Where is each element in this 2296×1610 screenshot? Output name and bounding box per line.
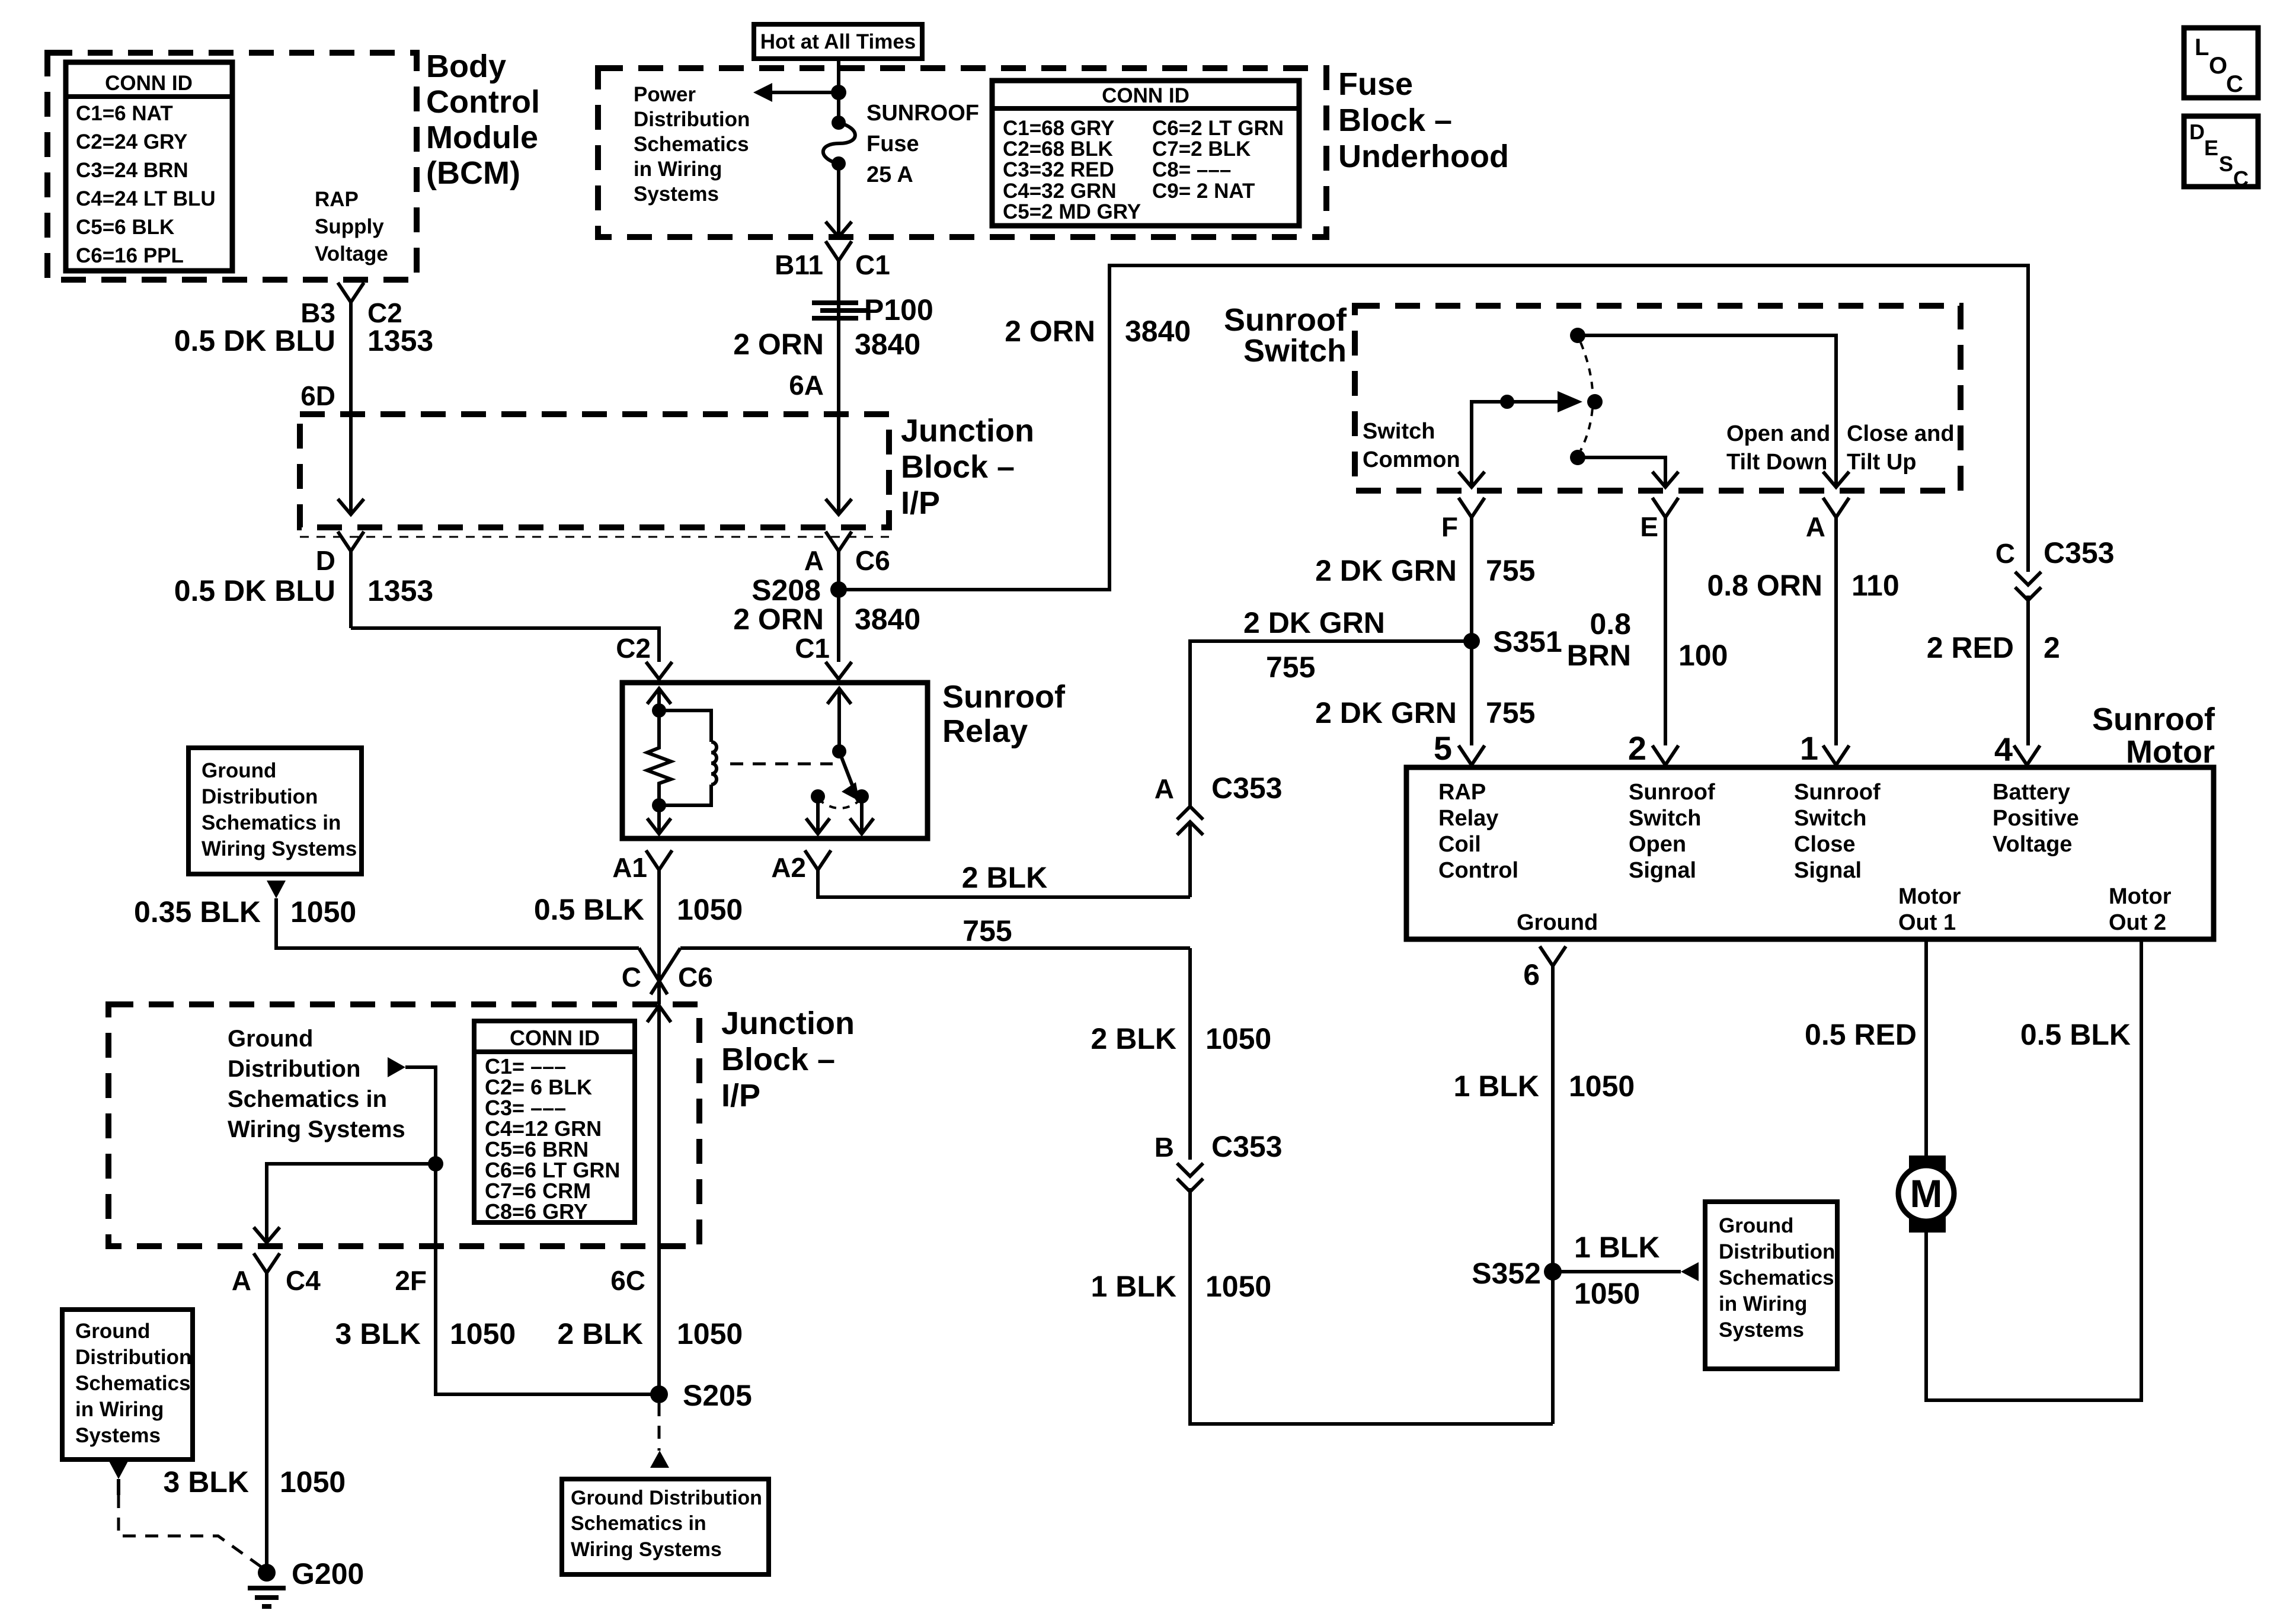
svg-text:3840: 3840 (855, 603, 920, 636)
CONN ID table (Fuse Block) (992, 81, 1299, 226)
svg-text:C7=2 BLK: C7=2 BLK (1152, 137, 1251, 161)
arrow to power distribution (left) (753, 83, 839, 102)
connector B11/C1 below fuse block (775, 241, 890, 280)
svg-text:Close and: Close and (1847, 421, 1955, 446)
svg-text:Positive: Positive (1993, 806, 2079, 831)
svg-text:Distribution: Distribution (202, 785, 318, 808)
Sunroof Switch label (1224, 302, 1347, 369)
svg-text:1353: 1353 (367, 574, 433, 607)
svg-text:C4=24 LT BLU: C4=24 LT BLU (76, 187, 216, 210)
svg-text:C353: C353 (1211, 1130, 1283, 1163)
svg-text:S352: S352 (1472, 1257, 1541, 1290)
relay pin A2 connector (771, 850, 831, 883)
wire fuse to fuse block edge with arrow (826, 164, 852, 237)
dashed link to G200 (119, 1495, 264, 1569)
relay pin C1 connector (795, 633, 852, 683)
junction dot on ground bus (428, 1156, 443, 1172)
svg-text:RAP: RAP (1438, 780, 1486, 805)
connector B3/C2 at BCM (300, 283, 402, 328)
svg-text:Power: Power (634, 83, 696, 106)
svg-text:Ground: Ground (75, 1320, 150, 1343)
svg-text:Signal: Signal (1629, 858, 1696, 883)
svg-text:C353: C353 (1211, 772, 1283, 805)
Switch Common label (1363, 419, 1460, 472)
svg-text:in Wiring: in Wiring (75, 1398, 164, 1421)
svg-text:C: C (2233, 167, 2249, 191)
wire 2 BLK 755 relay A2 to connector (818, 861, 1190, 948)
svg-text:1: 1 (1800, 729, 1818, 767)
svg-text:2F: 2F (395, 1265, 427, 1296)
svg-text:Switch: Switch (1243, 333, 1347, 369)
relay pin A1 connector (612, 850, 672, 883)
RAP Supply Voltage pin label (315, 188, 388, 265)
relay coil branch entry arrow (C2 side) (647, 689, 671, 745)
wire 0.5 DK BLU 1353 from BCM to junction block (174, 302, 434, 414)
wire 2 BLK 1050 on 6C branch (558, 1317, 743, 1350)
svg-text:Distribution: Distribution (228, 1056, 360, 1082)
svg-text:Tilt Down: Tilt Down (1726, 450, 1827, 475)
svg-text:Motor: Motor (1898, 884, 1961, 909)
svg-text:C: C (2226, 71, 2243, 97)
svg-text:E: E (1640, 511, 1658, 542)
svg-text:Switch: Switch (1629, 806, 1701, 831)
svg-text:C1=68 GRY: C1=68 GRY (1003, 117, 1114, 140)
wire branch to A/C4 (254, 1164, 436, 1243)
wire 1 BLK 1050 S352 to ground distribution (1553, 1231, 1699, 1310)
svg-text:755: 755 (962, 914, 1012, 948)
switch close contact (top) and wire to pin A (1570, 328, 1849, 487)
svg-text:Coil: Coil (1438, 832, 1481, 857)
arrow into junction block 2 (647, 1006, 671, 1022)
motor Out 1 label (1898, 884, 1961, 935)
svg-text:C8=6 GRY: C8=6 GRY (485, 1199, 588, 1224)
svg-text:Distribution: Distribution (634, 108, 750, 131)
switch open contact (bottom) and wire to pin E (1570, 450, 1678, 487)
relay switch arm (839, 751, 859, 801)
connector B/C353 (1155, 1130, 1283, 1192)
wire 2 ORN 3840 S208 to sunroof motor battery feed (839, 265, 2028, 590)
Junction Block - I/P (lower) dashed box (108, 1004, 699, 1246)
svg-text:F: F (1441, 511, 1458, 542)
motor pin 2 label: Sunroof Switch Open Signal (1629, 780, 1715, 883)
svg-text:Distribution: Distribution (75, 1346, 191, 1369)
motor pin 5 label: RAP Relay Coil Control (1438, 780, 1518, 883)
svg-text:2 DK GRN: 2 DK GRN (1243, 606, 1385, 639)
wire 0.8 ORN 110 from A to motor pin 1 (1707, 517, 1899, 745)
svg-text:C4=32 GRN: C4=32 GRN (1003, 180, 1117, 203)
svg-text:Motor: Motor (2126, 734, 2215, 770)
Ground Distribution reference label inside junction block (228, 1026, 405, 1142)
svg-text:Module: Module (426, 120, 538, 155)
svg-text:Systems: Systems (1719, 1318, 1804, 1342)
svg-text:Schematics: Schematics (634, 133, 749, 156)
svg-text:in Wiring: in Wiring (634, 158, 722, 181)
svg-text:100: 100 (1678, 639, 1728, 672)
svg-text:C1: C1 (855, 249, 890, 280)
svg-text:C2=24 GRY: C2=24 GRY (76, 130, 187, 153)
svg-text:Schematics: Schematics (75, 1372, 191, 1395)
svg-text:2 BLK: 2 BLK (962, 861, 1047, 894)
svg-text:L: L (2195, 34, 2209, 60)
svg-text:2 DK GRN: 2 DK GRN (1315, 696, 1457, 729)
svg-text:Sunroof: Sunroof (2092, 702, 2215, 737)
Ground Distribution box (bottom middle) (562, 1479, 769, 1574)
svg-text:4: 4 (1994, 731, 2013, 768)
svg-text:3840: 3840 (1125, 315, 1191, 348)
svg-text:Tilt Up: Tilt Up (1847, 450, 1917, 475)
svg-text:A: A (1806, 511, 1825, 542)
Junction Block - I/P (upper) dashed box (300, 414, 889, 537)
Sunroof Switch dashed box (1355, 306, 1961, 491)
svg-text:3 BLK: 3 BLK (164, 1465, 249, 1499)
svg-text:110: 110 (1851, 569, 1900, 602)
svg-text:2 RED: 2 RED (1927, 631, 2014, 664)
svg-text:Common: Common (1363, 447, 1460, 472)
wire 0.5 DK BLU 1353 to relay C2 (174, 551, 659, 662)
relay switch common from C1 (827, 689, 851, 758)
svg-text:Sunroof: Sunroof (942, 679, 1066, 715)
svg-text:Systems: Systems (634, 183, 719, 206)
svg-text:Sunroof: Sunroof (1629, 780, 1715, 805)
svg-text:2 BLK: 2 BLK (558, 1317, 643, 1350)
wire 6D inside junction block with arrow (338, 414, 364, 514)
svg-text:CONN ID: CONN ID (105, 72, 193, 95)
svg-text:0.8: 0.8 (1590, 607, 1631, 641)
wire 2 DK GRN 755 branch from S351 to relay A2 (1190, 606, 1472, 806)
svg-text:CONN ID: CONN ID (510, 1026, 600, 1050)
SUNROOF Fuse 25 A (823, 101, 979, 187)
relay resistor lower junction and exit arrow to A1 (647, 786, 671, 834)
motor out 2 wire 0.5 BLK (1926, 939, 2141, 1400)
svg-text:Wiring Systems: Wiring Systems (202, 837, 357, 860)
svg-text:Ground: Ground (202, 759, 276, 782)
switch common wiper with arrow (1459, 391, 1603, 487)
svg-text:O: O (2209, 53, 2227, 79)
svg-text:Junction: Junction (721, 1006, 855, 1041)
svg-text:C1: C1 (795, 633, 830, 664)
svg-text:6A: 6A (789, 370, 824, 401)
svg-text:Motor: Motor (2109, 884, 2172, 909)
Sunroof Motor box (1406, 702, 2215, 939)
motor Ground label (1517, 910, 1598, 935)
svg-text:1 BLK: 1 BLK (1454, 1070, 1539, 1103)
svg-text:D: D (2189, 120, 2205, 144)
svg-text:A2: A2 (771, 852, 806, 883)
svg-text:755: 755 (1266, 651, 1315, 684)
connector A/C353 on relay control wire (1155, 772, 1283, 897)
pin 6 connector below motor (Ground) (1523, 946, 1566, 991)
wire from arrow to 2F branch (405, 1067, 659, 1394)
Hot at All Times box (754, 24, 922, 59)
wire 6C through junction block to S205 (657, 1006, 661, 1394)
svg-text:C6: C6 (678, 962, 713, 993)
svg-text:2 ORN: 2 ORN (733, 328, 824, 361)
svg-text:1050: 1050 (290, 895, 356, 929)
pin 5 connector at motor (1434, 729, 1485, 767)
svg-text:C2: C2 (616, 633, 651, 664)
svg-text:Voltage: Voltage (1993, 832, 2072, 857)
svg-text:C: C (1996, 538, 2015, 569)
svg-text:Sunroof: Sunroof (1794, 780, 1881, 805)
svg-text:5: 5 (1434, 729, 1452, 767)
svg-text:Block –: Block – (901, 449, 1015, 485)
svg-text:A1: A1 (612, 852, 647, 883)
DESC reference box (2184, 116, 2258, 191)
svg-text:2 BLK: 2 BLK (1091, 1022, 1176, 1055)
svg-text:0.5 DK BLU: 0.5 DK BLU (174, 324, 335, 357)
svg-text:Control: Control (426, 84, 540, 120)
Fuse Block label (1338, 66, 1509, 174)
node S205 (650, 1379, 752, 1412)
svg-text:A: A (1155, 773, 1174, 804)
node S208 (752, 551, 847, 662)
Ground Distribution box (bottom left) (62, 1310, 193, 1459)
svg-text:3840: 3840 (855, 328, 920, 361)
svg-text:2: 2 (2044, 631, 2060, 664)
Ground Distribution box (right) (1705, 1202, 1837, 1369)
wire 2 DK GRN 755 from F to S351 (1315, 517, 1535, 745)
svg-text:C8= –––: C8= ––– (1152, 158, 1231, 181)
Junction Block upper label (901, 413, 1034, 521)
svg-text:1353: 1353 (367, 324, 433, 357)
off-page arrow to ground distribution inside junction block (388, 1057, 405, 1077)
svg-text:3 BLK: 3 BLK (335, 1317, 421, 1350)
svg-text:SUNROOF: SUNROOF (866, 101, 979, 126)
svg-text:0.5 BLK: 0.5 BLK (534, 893, 644, 926)
svg-text:Wiring Systems: Wiring Systems (571, 1538, 722, 1561)
svg-text:1050: 1050 (1569, 1070, 1635, 1103)
wire from Hot at All Times into fuse block (837, 59, 840, 119)
svg-text:C5=6 BLK: C5=6 BLK (76, 216, 174, 239)
svg-text:Out 2: Out 2 (2109, 910, 2166, 935)
junction dot at fuse feed (831, 85, 846, 100)
svg-text:S205: S205 (683, 1379, 752, 1412)
relay actuation dashed link (730, 763, 833, 766)
2F cavity label (395, 1265, 427, 1296)
svg-text:I/P: I/P (901, 485, 940, 521)
svg-text:S208: S208 (752, 574, 821, 607)
wire 2 ORN 3840 to junction block (733, 261, 920, 414)
svg-text:Schematics in: Schematics in (202, 811, 341, 834)
LOC reference box (2184, 28, 2258, 98)
svg-text:Hot at All Times: Hot at All Times (760, 30, 916, 53)
connector D below junction block (316, 532, 364, 576)
svg-text:Supply: Supply (315, 215, 384, 238)
6C cavity label (610, 1265, 645, 1296)
svg-text:6D: 6D (300, 380, 335, 411)
svg-text:C4: C4 (286, 1265, 321, 1296)
svg-text:Wiring Systems: Wiring Systems (228, 1116, 405, 1142)
node S352 (1472, 1257, 1562, 1290)
svg-text:755: 755 (1486, 554, 1535, 587)
svg-text:2 ORN: 2 ORN (1005, 315, 1095, 348)
svg-text:Sunroof: Sunroof (1224, 302, 1347, 338)
pin 2 connector at motor (1628, 729, 1678, 767)
svg-text:0.5 BLK: 0.5 BLK (2020, 1018, 2131, 1051)
svg-text:E: E (2204, 136, 2218, 160)
Power Distribution reference label (634, 83, 750, 206)
svg-text:1050: 1050 (677, 893, 743, 926)
relay contacts with dashed travel arc (806, 789, 874, 834)
connector A/C6 below junction block (804, 532, 890, 576)
svg-text:A: A (232, 1265, 251, 1296)
svg-text:Schematics in: Schematics in (571, 1512, 706, 1535)
svg-text:Ground: Ground (1517, 910, 1598, 935)
svg-text:6: 6 (1523, 958, 1540, 991)
svg-text:Ground Distribution: Ground Distribution (571, 1487, 762, 1509)
svg-text:S: S (2219, 152, 2233, 176)
svg-text:C5=2 MD GRY: C5=2 MD GRY (1003, 200, 1141, 223)
svg-text:0.5 DK BLU: 0.5 DK BLU (174, 574, 335, 607)
switch travel dashed arc (1581, 343, 1593, 450)
svg-text:Open: Open (1629, 832, 1686, 857)
connector C/C6 splice symbol (622, 948, 1190, 994)
svg-text:in Wiring: in Wiring (1719, 1292, 1807, 1315)
wire 3 BLK 1050 on 2F branch (335, 1317, 516, 1350)
svg-text:M: M (1910, 1172, 1943, 1215)
wire 3 BLK 1050 to G200 (164, 1273, 346, 1573)
svg-text:1 BLK: 1 BLK (1574, 1231, 1659, 1264)
svg-text:B11: B11 (775, 249, 823, 280)
svg-text:Switch: Switch (1794, 806, 1866, 831)
svg-text:B: B (1155, 1132, 1174, 1163)
svg-text:1050: 1050 (280, 1465, 346, 1499)
svg-text:Out 1: Out 1 (1898, 910, 1956, 935)
svg-text:C9= 2 NAT: C9= 2 NAT (1152, 180, 1255, 203)
Close and Tilt Up label (1847, 421, 1955, 475)
connector A/C4 below junction block (232, 1253, 321, 1296)
svg-text:6C: 6C (610, 1265, 645, 1296)
off-page triangle below bottom-left ground box (109, 1461, 128, 1495)
svg-text:Fuse: Fuse (1338, 66, 1413, 102)
svg-text:0.35 BLK: 0.35 BLK (134, 895, 261, 929)
Junction Block lower label (721, 1006, 855, 1113)
relay resistor (647, 745, 671, 786)
svg-text:C1=6 NAT: C1=6 NAT (76, 102, 173, 125)
svg-text:D: D (316, 545, 335, 576)
connector E below switch (1640, 498, 1678, 542)
Fuse Block - Underhood dashed box (598, 68, 1326, 237)
svg-text:Underhood: Underhood (1338, 139, 1509, 174)
motor pin 4 label: Battery Positive Voltage (1993, 780, 2079, 857)
Body Control Module (BCM) dashed box (47, 53, 417, 280)
svg-text:C6=2 LT GRN: C6=2 LT GRN (1152, 117, 1284, 140)
svg-text:Block –: Block – (721, 1042, 835, 1077)
connector F below switch (1441, 498, 1485, 542)
relay coil (659, 710, 717, 805)
connector C/C353 (sunroof motor harness) (1996, 536, 2115, 745)
dashed wire below S205 to ground distribution reference (650, 1403, 669, 1468)
svg-text:Signal: Signal (1794, 858, 1862, 883)
svg-text:CONN ID: CONN ID (1102, 84, 1189, 107)
svg-text:Close: Close (1794, 832, 1855, 857)
svg-text:Ground: Ground (228, 1026, 313, 1052)
wire 0.8 BRN 100 from E to motor pin 2 (1567, 517, 1728, 745)
svg-text:2 ORN: 2 ORN (733, 603, 824, 636)
relay pin C2 connector (616, 633, 672, 683)
P100 pass-through connector (812, 293, 933, 327)
wire 1 BLK 1050 to S352 ground run (1091, 1188, 1553, 1424)
motor out 1 wire 0.5 RED (1805, 939, 1926, 1157)
motor M symbol (1898, 1156, 1954, 1233)
svg-text:Open and: Open and (1726, 421, 1830, 446)
svg-text:Voltage: Voltage (315, 242, 388, 265)
svg-text:P100: P100 (864, 293, 933, 327)
wire 2 RED 2 to motor pin 4 (1927, 631, 2060, 664)
wire 0.5 BLK 1050 from relay A1 (534, 870, 743, 1004)
svg-text:Switch: Switch (1363, 419, 1435, 444)
svg-text:G200: G200 (292, 1557, 364, 1590)
ground G200 (248, 1557, 364, 1606)
Sunroof Relay box (622, 679, 1066, 838)
svg-text:Junction: Junction (901, 413, 1034, 449)
svg-text:0.5 RED: 0.5 RED (1805, 1018, 1917, 1051)
svg-text:1050: 1050 (1205, 1022, 1271, 1055)
svg-text:Distribution: Distribution (1719, 1240, 1835, 1263)
svg-text:C: C (622, 962, 641, 993)
svg-text:C2=68 BLK: C2=68 BLK (1003, 137, 1113, 161)
svg-text:Systems: Systems (75, 1424, 161, 1447)
wire 2 DK GRN 755 from S351 to motor pin 5 (1315, 696, 1535, 729)
svg-text:C3=24 BRN: C3=24 BRN (76, 159, 188, 182)
svg-text:Ground: Ground (1719, 1214, 1793, 1237)
pin 4 connector at motor (1994, 731, 2040, 768)
wire 6A inside junction block with arrow (826, 414, 852, 514)
CONN ID table (BCM) (66, 62, 232, 271)
off-page triangle below left ground box (267, 881, 286, 898)
svg-text:0.8 ORN: 0.8 ORN (1707, 569, 1822, 602)
svg-text:2: 2 (1628, 729, 1646, 767)
wire 2 ORN 3840 S208 to relay C1 (733, 603, 920, 636)
svg-text:1 BLK: 1 BLK (1091, 1270, 1176, 1303)
svg-text:Relay: Relay (942, 713, 1028, 749)
svg-text:1050: 1050 (1574, 1277, 1640, 1310)
svg-text:Block –: Block – (1338, 103, 1452, 138)
svg-text:1050: 1050 (677, 1317, 743, 1350)
svg-text:C6: C6 (855, 545, 890, 576)
svg-text:C3=32 RED: C3=32 RED (1003, 158, 1114, 181)
pin 1 connector at motor (1800, 729, 1849, 767)
svg-text:Fuse: Fuse (866, 132, 919, 156)
svg-text:1050: 1050 (1205, 1270, 1271, 1303)
svg-text:Battery: Battery (1993, 780, 2070, 805)
Ground Distribution box (left of relay) (188, 748, 362, 874)
svg-text:1050: 1050 (450, 1317, 516, 1350)
svg-text:RAP: RAP (315, 188, 359, 211)
svg-text:C6=16 PPL: C6=16 PPL (76, 244, 184, 267)
svg-text:A: A (804, 545, 824, 576)
svg-text:S351: S351 (1493, 625, 1562, 658)
svg-text:2 DK GRN: 2 DK GRN (1315, 554, 1457, 587)
svg-text:BRN: BRN (1567, 639, 1631, 672)
svg-text:25 A: 25 A (866, 162, 913, 187)
svg-text:Schematics: Schematics (1719, 1266, 1834, 1289)
svg-text:Body: Body (426, 49, 506, 84)
Open and Tilt Down label (1726, 421, 1830, 475)
svg-text:Relay: Relay (1438, 806, 1498, 831)
wire 0.35 BLK 1050 ground run (134, 895, 639, 948)
svg-text:(BCM): (BCM) (426, 155, 520, 191)
svg-text:I/P: I/P (721, 1078, 760, 1113)
node S351 (1463, 625, 1562, 658)
svg-text:Control: Control (1438, 858, 1518, 883)
wire 1 BLK 1050 from motor pin 6 to S352 (1454, 966, 1635, 1424)
motor pin 1 label: Sunroof Switch Close Signal (1794, 780, 1881, 883)
BCM label (426, 49, 540, 191)
connector A below switch (1806, 498, 1849, 542)
svg-text:755: 755 (1486, 696, 1535, 729)
wire 2 BLK 1050 junction block ground feed (1091, 948, 1272, 1160)
